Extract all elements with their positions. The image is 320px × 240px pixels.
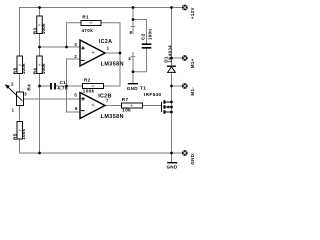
node bottom rail left <box>38 152 41 155</box>
capacitor C2 <box>141 29 153 48</box>
node bottom rail right <box>170 152 173 155</box>
node GND upper <box>132 70 135 73</box>
wire C1 left <box>40 85 51 87</box>
resistor R6 <box>33 56 46 74</box>
svg-text:1N4934: 1N4934 <box>167 45 172 63</box>
svg-text:IRF540: IRF540 <box>144 92 162 97</box>
node R1 left at pin3 wire <box>65 46 68 49</box>
terminal M1- <box>182 83 195 95</box>
svg-text:100k: 100k <box>83 89 95 94</box>
wire node A to IC2A pin 3 <box>40 46 80 48</box>
svg-text:R2: R2 <box>84 78 91 83</box>
svg-text:+12V: +12V <box>190 7 195 19</box>
op-amp IC2B <box>74 92 124 119</box>
svg-text:R6: R6 <box>33 68 38 75</box>
svg-text:GND: GND <box>127 86 138 91</box>
svg-text:R7: R7 <box>122 97 129 102</box>
svg-text:M1-: M1- <box>190 87 195 96</box>
node M1- <box>170 85 173 88</box>
ground symbol upper <box>127 84 138 91</box>
terminal +12V <box>182 5 195 19</box>
wire left column top to R8 <box>19 8 21 57</box>
wire R3 column top <box>39 8 41 17</box>
node R3 top <box>38 6 41 9</box>
op-amp power pin labels 8 and 4 <box>128 30 132 61</box>
node IC2A output <box>119 52 122 55</box>
resistor R1 <box>81 15 101 33</box>
svg-text:R4: R4 <box>26 84 31 91</box>
wire power pin 8 <box>132 8 134 34</box>
wire D1 anode through T1 to bottom rail <box>171 72 173 153</box>
wire R5 to bottom rail <box>19 139 21 153</box>
transistor T1 IRF540 <box>140 86 171 114</box>
wire pot R4 to R5 <box>19 106 21 122</box>
wire R2 right leg up to output node <box>104 53 121 86</box>
svg-text:LM358N: LM358N <box>101 114 124 120</box>
node T1 drain <box>170 101 173 104</box>
terminal GND <box>182 150 195 165</box>
resistor R8 <box>13 56 26 74</box>
node A R3/R6 at pin3 wire <box>38 46 41 49</box>
wire R1 left leg down to pin3 node <box>67 23 82 47</box>
pin 4 tick <box>131 56 134 58</box>
svg-text:100k: 100k <box>21 129 26 140</box>
wire IC2A output <box>105 52 120 54</box>
node C1 right <box>65 85 68 88</box>
wire R3 bottom to node A <box>39 34 41 57</box>
wire C1 right to R2 <box>56 85 83 87</box>
svg-text:R1: R1 <box>82 15 89 20</box>
ground symbol lower <box>166 163 177 170</box>
junction node dots <box>38 6 173 154</box>
node D1 column top <box>170 6 173 9</box>
resistor R5 <box>13 122 26 140</box>
wire bottom GND rail <box>20 152 183 154</box>
node T1 bulk <box>170 106 173 109</box>
svg-text:R5: R5 <box>13 133 18 140</box>
svg-text:T1: T1 <box>140 86 146 91</box>
node T1 source <box>170 111 173 114</box>
wire pot wiper to IC2B pin5 <box>24 98 80 100</box>
svg-text:IC2A: IC2A <box>99 39 112 45</box>
svg-text:C1: C1 <box>60 80 67 85</box>
wire IC2A pin2 to C1 node to IC2B pin6 <box>67 59 80 112</box>
wire GND stub lower <box>171 153 173 162</box>
svg-text:R3: R3 <box>33 28 38 35</box>
wire M1+ stub <box>172 57 183 59</box>
svg-text:100n: 100n <box>147 29 152 40</box>
svg-text:10k: 10k <box>122 108 131 113</box>
svg-text:GND: GND <box>190 154 195 165</box>
wire R6 bottom through C1 node to ground rail <box>39 74 41 154</box>
svg-text:100k: 100k <box>21 63 26 74</box>
wire D1 column top <box>171 8 173 67</box>
wire C2 top branch <box>133 20 147 44</box>
diode D1 <box>163 45 176 73</box>
svg-text:100k: 100k <box>41 63 46 74</box>
capacitor C1 <box>51 80 68 90</box>
potentiometer R4 <box>5 82 31 113</box>
node C2 branch <box>132 18 135 21</box>
wire IC2B output to R7 <box>105 105 122 107</box>
resistor R2 <box>83 78 104 94</box>
node power column top <box>132 6 135 9</box>
svg-text:GND: GND <box>166 165 177 170</box>
wire R1 right leg down to output node <box>101 23 120 53</box>
op-amp IC2A <box>74 39 124 67</box>
node M1+ <box>170 57 173 60</box>
wire top +12V rail <box>20 7 183 9</box>
wire R7 to T1 gate <box>143 105 162 107</box>
resistor R7 <box>122 97 143 112</box>
pin 8 tick <box>131 26 134 28</box>
terminal M1+ <box>182 55 195 68</box>
wire M1- stub <box>172 85 183 87</box>
svg-text:R8: R8 <box>13 68 18 75</box>
svg-text:470k: 470k <box>82 28 94 33</box>
wire C2 bottom to GND node <box>133 49 147 72</box>
wire power pin 4 <box>132 53 134 72</box>
svg-text:C2: C2 <box>141 33 146 40</box>
svg-text:M1+: M1+ <box>190 58 195 68</box>
svg-text:LM358N: LM358N <box>101 61 124 67</box>
svg-text:100k: 100k <box>41 23 46 34</box>
node C1 left <box>38 85 41 88</box>
wire R8 to pot R4 <box>19 74 21 93</box>
wire GND stub upper <box>132 72 134 84</box>
resistor R3 <box>33 16 46 34</box>
